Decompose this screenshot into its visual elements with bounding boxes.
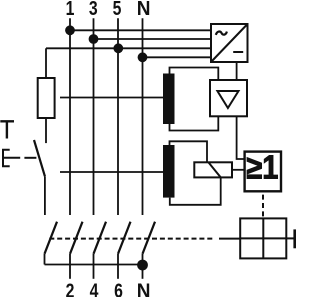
wire relay to OR gate [232,169,245,171]
wire W1 bottom to amplifier [170,116,219,130]
manual handle bar [293,229,296,248]
wire conductor L3 vertical [93,18,95,215]
wire conductor N vertical [142,18,144,215]
contact blade pole 5 [118,222,131,254]
latch cross horizontal [240,237,286,239]
wire feed N to converter [143,56,212,58]
converter AC tilde [216,32,227,35]
converter box AC/DC [211,24,248,62]
relay diagonal [208,162,220,177]
svg-text:4: 4 [90,280,99,297]
latch mechanism box [240,218,286,258]
mech link latch left solid [219,238,240,240]
wire resistor to test contact [45,118,47,143]
wire feed L1 to converter [70,29,211,31]
node dot N bottom [137,260,148,271]
core link line upper CT [60,97,163,99]
wire W1 top to amplifier [170,68,219,81]
wire latch to handle [286,237,294,239]
test return bus wire [45,264,143,266]
node dot N [138,52,148,62]
mechanical link button to contact [24,157,36,159]
wire relay bottom to W2 bottom [170,177,221,204]
push-button actuator symbol [3,150,20,167]
svg-text:2: 2 [66,280,75,297]
amplifier box [210,80,247,116]
wire test contact down [44,176,46,215]
svg-text:3: 3 [89,0,98,20]
wire pole 3 to terminal 4 [93,254,95,279]
label T test button [0,121,14,138]
OR gate box [245,152,281,192]
svg-text:≥1: ≥1 [246,149,278,186]
CT winding W2 [163,145,175,198]
contact blade pole 1 [70,222,83,254]
amplifier triangle [217,91,238,108]
wire test pole to bus [44,254,46,265]
svg-text:6: 6 [114,280,123,297]
contact blade pole 3 [94,222,107,254]
converter DC minus [233,51,243,53]
relay trip coil [194,162,232,177]
svg-text:N: N [137,280,151,297]
wire W2 top to relay [170,141,208,162]
wire feed L3 to converter [94,38,212,40]
mech link dashed to contacts [49,238,213,240]
resistor test [38,78,55,118]
node dot L5 [113,43,123,53]
contact blade test pole [45,222,58,254]
wire test branch down to resistor [45,48,47,78]
contact blade pole N [143,222,156,254]
node dot L1 [65,25,75,35]
svg-text:5: 5 [113,0,122,20]
svg-text:N: N [137,0,151,20]
wire amplifier to OR gate [237,116,245,159]
wire pole 5 to terminal 6 [117,254,119,279]
wire converter to amplifier [236,62,238,80]
svg-text:1: 1 [66,0,75,20]
latch cross vertical [262,218,264,258]
wire feed L5 / test branch to converter [46,47,211,49]
CT winding W1 [163,74,175,125]
core link line lower CT [60,171,163,173]
node dot L3 [89,34,99,44]
converter diagonal [211,24,248,62]
wire conductor L5 vertical [117,18,119,215]
wire pole N to terminal N [142,254,144,279]
mech link OR gate to latch (dashed) [262,195,264,219]
wire conductor L1 vertical [69,18,71,215]
wire pole 1 to terminal 2 [69,254,71,279]
test contact blade [34,140,45,176]
